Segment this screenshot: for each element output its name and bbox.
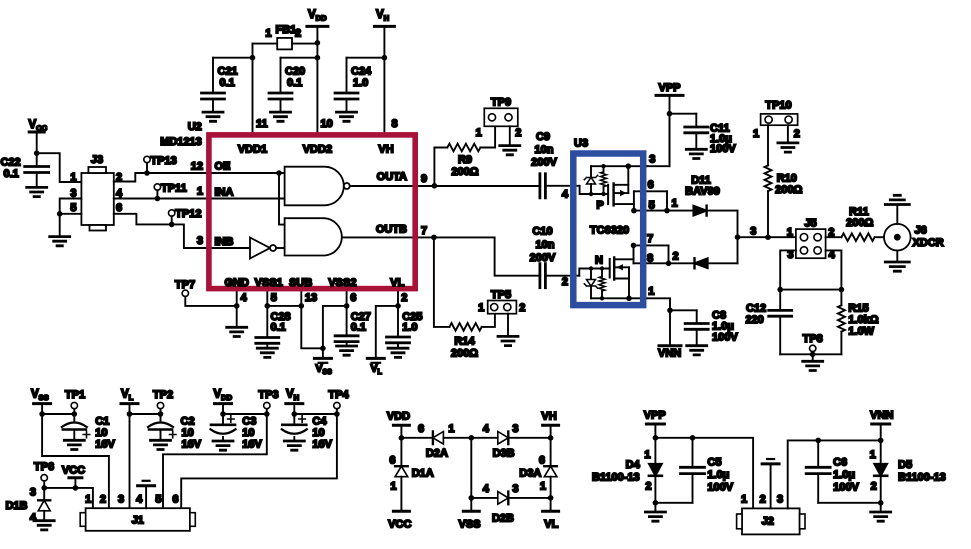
ferrite bead FB1 [253, 43, 278, 45]
svg-text:TP1: TP1 [65, 389, 85, 401]
wire R14 branch [434, 237, 450, 327]
svg-text:1: 1 [476, 127, 482, 139]
ground C28 [257, 348, 277, 357]
svg-text:C9: C9 [536, 131, 550, 143]
node OUTA-R9 [432, 183, 438, 189]
svg-text:VDD1: VDD1 [238, 144, 267, 156]
ground C24 [337, 112, 357, 121]
svg-text:200Ω: 200Ω [451, 166, 478, 178]
ground C20 [271, 112, 291, 121]
wire OUTA [350, 185, 538, 187]
power VCC top-left [29, 131, 44, 134]
svg-text:16V: 16V [182, 439, 202, 451]
wire center vertical diode net [470, 438, 472, 498]
svg-text:VNN: VNN [658, 348, 681, 360]
svg-text:VCC: VCC [388, 519, 411, 531]
svg-text:10: 10 [312, 427, 324, 439]
wire C12-R15 bottom rail [780, 353, 841, 355]
svg-text:1.0: 1.0 [353, 77, 368, 89]
jumper TP9 [484, 108, 518, 126]
wire TP4 to J1 pin6 [181, 414, 337, 508]
svg-text:10: 10 [321, 118, 333, 130]
wire J1 pin4 common [145, 486, 147, 508]
svg-text:1: 1 [672, 198, 678, 210]
svg-text:5: 5 [155, 494, 161, 506]
svg-text:D1B: D1B [6, 500, 28, 512]
power VCC above J1 [69, 476, 82, 479]
svg-text:5: 5 [649, 200, 655, 212]
svg-text:1.0W: 1.0W [848, 326, 874, 338]
svg-text:J2: J2 [762, 516, 774, 528]
svg-text:3: 3 [512, 423, 518, 435]
svg-text:C6: C6 [833, 457, 847, 469]
power VSS below U2 [322, 348, 324, 358]
svg-text:TP13: TP13 [151, 155, 177, 167]
svg-text:1: 1 [448, 423, 454, 435]
testpoint TP4 [334, 402, 340, 408]
ground J3 [50, 237, 70, 246]
power VNN right [669, 310, 671, 345]
svg-text:TP2: TP2 [153, 389, 173, 401]
wire VSS2 pin 6 [346, 289, 348, 336]
svg-text:VSS2: VSS2 [328, 277, 356, 289]
power VSS diode net [470, 498, 472, 511]
svg-text:1: 1 [390, 481, 396, 493]
svg-text:1: 1 [787, 226, 793, 238]
svg-text:1: 1 [265, 28, 271, 40]
diode D1A [400, 438, 402, 466]
jumper TP5 [488, 301, 517, 314]
svg-text:C24: C24 [351, 66, 372, 78]
connector J6 XDCR [884, 224, 911, 251]
svg-text:VL: VL [390, 277, 404, 289]
ground C4 [284, 441, 304, 450]
diode D2B [471, 497, 498, 499]
svg-text:1: 1 [741, 494, 747, 506]
ground D4 [645, 512, 665, 521]
svg-text:TP7: TP7 [175, 279, 195, 291]
resistor R15 [840, 290, 842, 306]
svg-text:10n: 10n [535, 144, 554, 156]
svg-text:200Ω: 200Ω [775, 184, 802, 196]
ground C8 [687, 346, 707, 355]
diode D2A [401, 437, 433, 439]
svg-text:MD1213: MD1213 [160, 136, 202, 148]
svg-text:1.0kΩ: 1.0kΩ [848, 314, 878, 326]
ground TP5 [498, 336, 518, 345]
svg-text:B1100-13: B1100-13 [592, 472, 640, 484]
pmos P U3 top [607, 185, 609, 204]
power VNN bottom [872, 423, 890, 426]
svg-text:2: 2 [401, 292, 407, 304]
testpoint TP13 [144, 156, 150, 162]
wire OUTB [343, 236, 494, 238]
capacitor C28 [256, 338, 279, 344]
and gate U2B [285, 218, 342, 255]
svg-text:3: 3 [118, 494, 124, 506]
power VH bottom row [286, 402, 303, 405]
svg-text:7: 7 [647, 233, 653, 245]
capacitor C5 [692, 438, 694, 468]
wire J3 pin4 to INA [114, 198, 207, 200]
wire J3 pin3-pin5 to ground [60, 199, 82, 237]
diode D3B [471, 437, 498, 439]
wire OUTB down to C10 [495, 237, 540, 275]
svg-text:INA: INA [215, 186, 234, 198]
wire VDD-TP3 [223, 413, 267, 415]
testpoint TP6 [41, 475, 47, 481]
svg-text:2: 2 [645, 481, 651, 493]
wire J2 pin2 common [770, 464, 772, 509]
wire J3 pin2 to OE [114, 173, 207, 182]
wire J6 top ground [896, 205, 898, 224]
node FB1-VDD [315, 40, 321, 46]
svg-text:6: 6 [172, 494, 178, 506]
wire VL pin 2 [397, 289, 399, 337]
svg-text:C20: C20 [285, 66, 305, 78]
svg-text:1: 1 [644, 449, 650, 461]
wire U3 pin3 to VPP [647, 114, 670, 167]
svg-text:R9: R9 [458, 154, 472, 166]
ground C22 [27, 187, 47, 196]
capacitor C2 [160, 414, 162, 421]
capacitor C6 [817, 440, 819, 467]
capacitor C27 [335, 336, 358, 342]
svg-text:100V: 100V [833, 482, 859, 494]
svg-text:1: 1 [648, 286, 654, 298]
node D4 bottom [653, 500, 659, 506]
wire U3 source rail N [591, 297, 647, 299]
svg-text:FB1: FB1 [276, 24, 297, 36]
connector J2 [742, 508, 800, 534]
zener N gate [590, 269, 592, 280]
svg-text:SUB: SUB [289, 277, 312, 289]
svg-text:3: 3 [777, 494, 783, 506]
svg-text:6: 6 [418, 423, 424, 435]
svg-text:C1: C1 [95, 416, 109, 428]
wire INA into gate [207, 198, 285, 200]
power VL diode net [550, 498, 552, 511]
svg-text:D1A: D1A [412, 468, 434, 480]
resistor R9 [447, 144, 480, 152]
svg-text:TP6: TP6 [34, 461, 54, 473]
wire VDD1 pin 11 [252, 44, 254, 135]
wire VL-TP2 [130, 413, 161, 415]
svg-text:R15: R15 [848, 303, 868, 315]
svg-text:D3A: D3A [519, 468, 541, 480]
ground C3 [213, 441, 233, 450]
svg-text:TP8: TP8 [803, 333, 823, 345]
svg-text:TP3: TP3 [258, 389, 278, 401]
svg-text:C10: C10 [532, 226, 552, 238]
node center bottom diode net [469, 495, 475, 501]
wire TP3 to J1 pin5 [163, 414, 267, 508]
svg-text:1.0μ: 1.0μ [707, 469, 729, 481]
ground GND pin [227, 327, 247, 336]
testpoint TP7 [182, 290, 188, 296]
svg-text:3: 3 [512, 483, 518, 495]
diode D3A [550, 438, 552, 466]
testpoint TP1 [71, 402, 77, 408]
jumper J5 [796, 229, 826, 258]
connector J1 [86, 508, 190, 531]
svg-text:J3: J3 [91, 154, 103, 166]
wire TP8 ground [812, 354, 814, 361]
wire U3 pin2 gate entry [579, 269, 609, 276]
svg-text:1: 1 [478, 302, 484, 314]
svg-text:VH: VH [541, 411, 556, 423]
svg-text:6: 6 [648, 179, 654, 191]
wire GND pin 4 [236, 289, 238, 328]
svg-text:0.1: 0.1 [351, 322, 366, 334]
svg-text:100V: 100V [712, 332, 738, 344]
wire D11 common node 3 [737, 211, 739, 264]
svg-text:6: 6 [539, 455, 545, 467]
wire TP10 pin2 ground [787, 125, 789, 143]
svg-text:P: P [596, 200, 603, 212]
svg-text:3: 3 [30, 487, 36, 499]
svg-text:6: 6 [389, 455, 395, 467]
svg-text:R14: R14 [454, 336, 475, 348]
nmos N U3 bottom [609, 259, 611, 278]
svg-text:12: 12 [191, 161, 203, 173]
wire VH-TP4 [294, 413, 337, 415]
svg-text:200Ω: 200Ω [451, 348, 478, 360]
ground TP9 [500, 146, 520, 155]
svg-text:9: 9 [421, 173, 427, 185]
svg-text:VH: VH [378, 144, 393, 156]
capacitor C3 [222, 414, 224, 425]
svg-text:0.1: 0.1 [271, 322, 286, 334]
svg-text:2: 2 [871, 481, 877, 493]
testpoint TP8 [810, 345, 816, 351]
svg-text:10: 10 [242, 427, 254, 439]
capacitor C8 [670, 309, 697, 311]
svg-text:D2B: D2B [492, 513, 514, 525]
svg-text:D2A: D2A [426, 448, 448, 460]
svg-text:TP5: TP5 [491, 289, 511, 301]
svg-text:C22: C22 [1, 157, 21, 169]
svg-text:6: 6 [350, 292, 356, 304]
svg-text:4: 4 [483, 483, 490, 495]
wire TP9 pin2 ground [509, 126, 511, 145]
power VDD diode net [393, 424, 409, 427]
svg-text:N: N [595, 255, 603, 267]
wire VSS-TP1 [42, 413, 74, 415]
svg-text:1: 1 [540, 481, 546, 493]
svg-text:2: 2 [519, 302, 525, 314]
svg-text:BAV99: BAV99 [685, 186, 720, 198]
resistor P gate [603, 166, 605, 172]
svg-text:VSS1: VSS1 [255, 277, 283, 289]
ground J6 bottom [885, 262, 909, 271]
ground C2 [151, 440, 171, 449]
svg-text:0.1: 0.1 [220, 77, 235, 89]
testpoint TP11 [154, 184, 160, 190]
svg-text:1: 1 [197, 186, 203, 198]
svg-text:OE: OE [215, 160, 231, 172]
svg-text:C4: C4 [312, 416, 327, 428]
capacitor C1 [73, 414, 75, 421]
power VL bottom row [121, 402, 138, 405]
capacitor C11 [670, 113, 697, 115]
wire VCC to J3 pin1 [37, 153, 82, 182]
svg-text:200Ω: 200Ω [846, 217, 873, 229]
svg-text:VPP: VPP [644, 410, 666, 422]
node VNN-C8 [667, 308, 673, 314]
wire VSS1 pin 5 [266, 289, 268, 338]
svg-text:11: 11 [256, 118, 268, 130]
svg-text:1: 1 [70, 172, 76, 184]
svg-text:D5: D5 [898, 459, 912, 471]
power VL below U2 [367, 357, 384, 360]
capacitor C22 [36, 153, 38, 166]
svg-text:TC6320: TC6320 [590, 225, 629, 237]
svg-text:2: 2 [673, 251, 679, 263]
power VH diode net [543, 424, 559, 427]
svg-text:4: 4 [241, 292, 248, 304]
ground J6 top inverted [885, 195, 909, 204]
svg-text:XDCR: XDCR [913, 237, 944, 249]
svg-text:1.0: 1.0 [402, 322, 417, 334]
U3 pin5/6 bracket [634, 190, 667, 192]
svg-text:1: 1 [753, 128, 759, 140]
svg-text:3: 3 [750, 226, 756, 238]
svg-text:16V: 16V [312, 439, 332, 451]
svg-text:2: 2 [760, 494, 766, 506]
wire OE branch to AND gate [279, 173, 285, 225]
capacitor C12 [779, 290, 781, 311]
power VH top [374, 25, 394, 28]
diode D4 [654, 438, 656, 464]
svg-text:16V: 16V [242, 439, 262, 451]
ground TP10 [778, 143, 798, 152]
U3 pin7/8 bracket [634, 244, 669, 246]
svg-text:0.1: 0.1 [4, 168, 19, 180]
svg-text:5: 5 [271, 292, 277, 304]
svg-text:C5: C5 [707, 457, 721, 469]
capacitor C10 [540, 264, 546, 288]
diode D5 [880, 440, 882, 463]
svg-text:200V: 200V [530, 252, 556, 264]
wire TP5 pin2 ground [507, 314, 509, 337]
svg-text:6: 6 [116, 202, 122, 214]
wire J6 bottom ground [896, 251, 898, 263]
svg-text:U3: U3 [574, 138, 588, 150]
wire U3 pin1 to VNN node [647, 298, 671, 310]
svg-text:J5: J5 [804, 218, 816, 230]
node OUTB-R14 [431, 235, 437, 241]
resistor R14 [450, 323, 482, 331]
svg-text:0.1: 0.1 [287, 77, 302, 89]
svg-text:OUTB: OUTB [376, 224, 407, 236]
svg-text:8: 8 [647, 253, 653, 265]
ground D5 [871, 512, 891, 521]
capacitor C9 [540, 174, 546, 198]
svg-text:VDD2: VDD2 [303, 144, 332, 156]
resistor N gate [601, 269, 603, 277]
svg-text:7: 7 [421, 225, 427, 237]
testpoint TP3 [264, 402, 270, 408]
svg-text:D3B: D3B [493, 448, 515, 460]
wire C12-R15 top rail [780, 289, 841, 291]
testpoint TP2 [157, 402, 163, 408]
power VDD top [307, 25, 328, 28]
svg-text:3: 3 [649, 154, 655, 166]
svg-text:TP12: TP12 [175, 208, 201, 220]
resistor R11 [826, 236, 842, 238]
ground C21 [203, 112, 223, 121]
svg-text:100V: 100V [710, 143, 736, 155]
svg-text:TP11: TP11 [161, 183, 187, 195]
diode D11A [667, 210, 693, 212]
power VPP bottom [646, 423, 664, 426]
node D5 bottom [878, 500, 884, 506]
svg-text:2: 2 [100, 494, 106, 506]
wire J2 pin3 to VNN [788, 440, 881, 508]
wire U3 source rail P [591, 165, 647, 167]
capacitor C24 [382, 55, 388, 61]
inverter INB [207, 247, 251, 249]
wire VSS1 to SUB [267, 305, 301, 307]
IC U2 MD1213 red outline [209, 135, 415, 289]
connector J3 [81, 173, 113, 225]
svg-text:1: 1 [870, 449, 876, 461]
svg-text:TP4: TP4 [328, 389, 349, 401]
svg-text:C21: C21 [218, 66, 238, 78]
svg-text:J6: J6 [915, 225, 927, 237]
svg-text:1.0μ: 1.0μ [833, 469, 855, 481]
svg-text:10: 10 [95, 427, 107, 439]
svg-text:16V: 16V [95, 439, 115, 451]
svg-text:220: 220 [745, 314, 763, 326]
svg-text:2: 2 [562, 276, 568, 288]
svg-text:4: 4 [30, 512, 37, 524]
svg-text:TP10: TP10 [765, 100, 791, 112]
svg-text:VNN: VNN [870, 410, 893, 422]
svg-text:13: 13 [305, 292, 317, 304]
svg-text:B1100-13: B1100-13 [898, 472, 946, 484]
ground C1 [64, 440, 84, 449]
svg-text:VDD: VDD [387, 411, 410, 423]
wire VL to VL rail [376, 306, 398, 359]
nand gate U2A [285, 167, 344, 206]
wire VPP to J2 pin1 [655, 438, 753, 509]
power VCC diode net [393, 510, 409, 513]
ground C25 [388, 348, 408, 357]
ground C27 [337, 346, 357, 355]
wire R9 branch [434, 148, 447, 186]
wire OE into gate [207, 172, 285, 174]
wire J5 pin3 down [780, 250, 796, 289]
wire SUB pin 13 [301, 289, 323, 349]
svg-text:8: 8 [392, 118, 398, 130]
jumper TP10 [761, 114, 798, 125]
svg-text:C3: C3 [242, 416, 256, 428]
wire J5 pin4 down [826, 250, 842, 289]
svg-text:10: 10 [182, 427, 194, 439]
svg-text:2: 2 [794, 128, 800, 140]
wire VSS2 to VSS node [323, 306, 347, 348]
svg-text:C12: C12 [746, 303, 766, 315]
svg-text:1: 1 [85, 494, 91, 506]
capacitor C4 [293, 414, 295, 425]
wire VL to J1 pin3 [129, 414, 131, 508]
svg-text:GND: GND [224, 277, 249, 289]
capacitor C25 [387, 337, 410, 343]
svg-text:OUTA: OUTA [377, 171, 407, 183]
svg-text:4: 4 [562, 189, 569, 201]
